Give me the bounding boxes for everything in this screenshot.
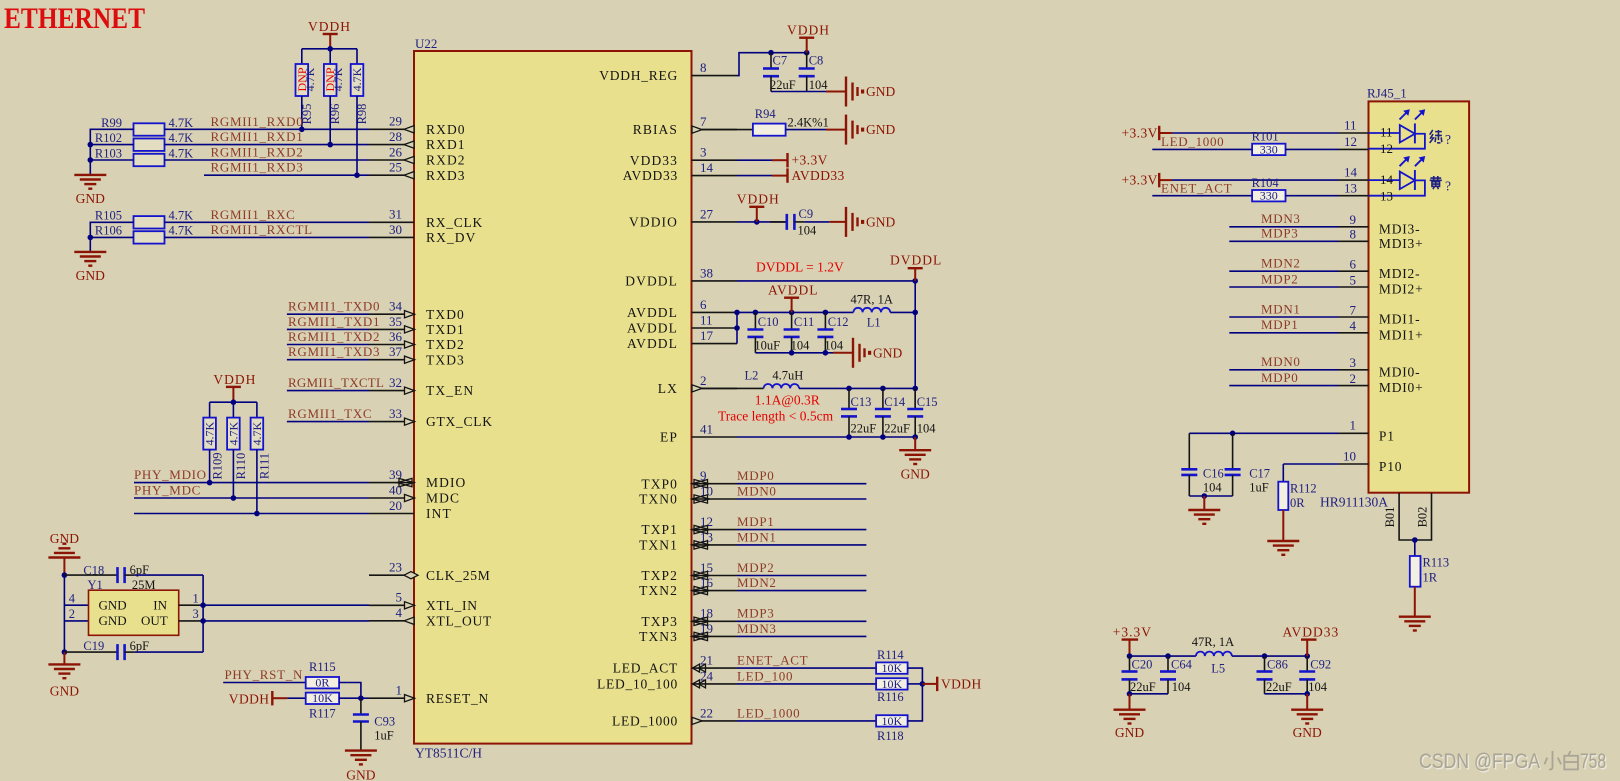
svg-text:PHY_MDIO: PHY_MDIO bbox=[134, 467, 207, 482]
wire RGMII1_TXD3 bbox=[287, 359, 369, 361]
ground GND (crystal top) bbox=[48, 531, 80, 575]
svg-text:38: 38 bbox=[700, 265, 713, 280]
wire L1 to DVDDL rail bbox=[890, 310, 918, 316]
inductor L5 47R 1A bbox=[1192, 635, 1234, 676]
svg-text:7: 7 bbox=[1350, 302, 1357, 317]
ground GND (RXC pulldowns) bbox=[74, 252, 106, 283]
net label RGMII1_RXD0 bbox=[211, 114, 304, 129]
svg-text:C16: C16 bbox=[1203, 467, 1224, 481]
wire R111 to INT bbox=[254, 450, 260, 517]
wire P10 (RJ45 pin 10) bbox=[1283, 448, 1402, 474]
svg-text:RBIAS: RBIAS bbox=[633, 122, 678, 137]
svg-text:22uF: 22uF bbox=[1130, 680, 1156, 694]
note DVDDL = 1.2V bbox=[756, 260, 844, 275]
svg-text:MDIO: MDIO bbox=[426, 475, 466, 490]
ground GND (RBIAS) bbox=[826, 115, 895, 145]
net label RGMII1_TXCTL bbox=[288, 375, 384, 390]
svg-text:R113: R113 bbox=[1423, 556, 1450, 570]
svg-text:C7: C7 bbox=[773, 54, 788, 68]
svg-text:C15: C15 bbox=[917, 395, 938, 409]
svg-text:RGMII1_TXD1: RGMII1_TXD1 bbox=[288, 314, 380, 329]
svg-text:4.7K: 4.7K bbox=[303, 67, 317, 91]
svg-text:MDN2: MDN2 bbox=[1261, 256, 1301, 271]
LED green (RJ45) bbox=[1369, 109, 1426, 148]
wire MDP3 to RJ45 pin 8 bbox=[1229, 227, 1423, 251]
wire +3.3V to RJ45 pin11 bbox=[1172, 118, 1369, 133]
svg-text:11: 11 bbox=[1380, 125, 1393, 140]
svg-text:MDP1: MDP1 bbox=[737, 514, 774, 529]
net label RGMII1_TXC bbox=[288, 406, 372, 421]
svg-text:R102: R102 bbox=[95, 131, 122, 145]
U22 pin 25 RXD3 bbox=[369, 160, 466, 183]
svg-text:?: ? bbox=[1445, 179, 1451, 194]
U22 pin 35 TXD1 bbox=[369, 314, 465, 337]
resistor R98 4.7K bbox=[350, 64, 369, 124]
wire RGMII1_RXD2 bbox=[165, 159, 370, 161]
svg-text:RGMII1_RXCTL: RGMII1_RXCTL bbox=[211, 222, 313, 237]
svg-text:4.7K: 4.7K bbox=[350, 67, 364, 91]
resistor R104 330 bbox=[1252, 176, 1286, 203]
U22 pin 26 RXD2 bbox=[369, 144, 466, 167]
svg-text:MDI2-: MDI2- bbox=[1379, 266, 1421, 281]
net label RGMII1_RXCTL bbox=[211, 222, 313, 237]
note 1.1A@0.3R bbox=[755, 393, 820, 408]
svg-text:10K: 10K bbox=[882, 714, 903, 728]
ground GND (C9) bbox=[830, 207, 896, 237]
ground GND (AVDDL caps) bbox=[833, 338, 902, 368]
svg-text:17: 17 bbox=[700, 328, 714, 343]
svg-text:104: 104 bbox=[1308, 680, 1328, 694]
svg-text:1R: 1R bbox=[1423, 571, 1438, 585]
svg-text:U22: U22 bbox=[415, 36, 437, 51]
net label MDP2 (RJ45 side) bbox=[1261, 271, 1298, 286]
U22 pin 5 XTL_IN bbox=[369, 590, 478, 613]
wire XTL_IN bbox=[203, 604, 369, 606]
svg-text:30: 30 bbox=[389, 222, 402, 237]
net label RGMII1_RXC bbox=[211, 207, 296, 222]
svg-text:23: 23 bbox=[389, 560, 402, 575]
svg-text:RXD0: RXD0 bbox=[426, 122, 466, 137]
wire EP pin41 bbox=[737, 434, 918, 440]
resistor R114 10K bbox=[876, 648, 908, 675]
svg-text:LX: LX bbox=[658, 381, 678, 396]
wire MDN1 to RJ45 pin 7 bbox=[1229, 302, 1420, 326]
svg-text:C11: C11 bbox=[794, 315, 814, 329]
resistor R105 4.7K bbox=[95, 209, 193, 229]
capacitor C20 22uF bbox=[1122, 656, 1156, 694]
net label MDP1 (U22 side) bbox=[737, 514, 774, 529]
U22 pin 30 RX_DV bbox=[369, 222, 477, 245]
svg-text:VDDH: VDDH bbox=[229, 692, 270, 707]
svg-text:TXD1: TXD1 bbox=[426, 322, 465, 337]
svg-text:0R: 0R bbox=[315, 676, 329, 690]
capacitor C19 6pF bbox=[64, 639, 203, 660]
svg-text:RGMII1_TXC: RGMII1_TXC bbox=[288, 406, 372, 421]
svg-text:TXN0: TXN0 bbox=[639, 492, 678, 507]
svg-text:R103: R103 bbox=[95, 147, 122, 161]
svg-text:RGMII1_RXD3: RGMII1_RXD3 bbox=[211, 160, 304, 175]
svg-text:6: 6 bbox=[700, 297, 707, 312]
wire INT bbox=[134, 513, 369, 515]
wire MDP0 to RJ45 pin 2 bbox=[1229, 371, 1423, 395]
U22 pin 9 TXP0 bbox=[641, 468, 737, 491]
svg-text:R111: R111 bbox=[258, 453, 272, 479]
svg-text:TXD3: TXD3 bbox=[426, 352, 465, 367]
svg-text:RGMII1_RXC: RGMII1_RXC bbox=[211, 207, 296, 222]
capacitor C93 1uF bbox=[353, 698, 395, 750]
svg-text:VDD33: VDD33 bbox=[630, 153, 678, 168]
net label MDN2 (U22 side) bbox=[737, 575, 777, 590]
capacitor C15 104 bbox=[907, 388, 937, 437]
svg-text:LED_ACT: LED_ACT bbox=[613, 661, 678, 676]
svg-text:MDP2: MDP2 bbox=[737, 560, 774, 575]
wire R95 to RGMII1_RXD0 bbox=[299, 96, 305, 132]
wire DVDDL rail bbox=[914, 281, 916, 409]
wire DVDDL pin38 bbox=[737, 278, 918, 284]
svg-text:GND: GND bbox=[99, 613, 127, 628]
crystal Y1 25M bbox=[69, 578, 203, 635]
svg-text:330: 330 bbox=[1260, 189, 1278, 203]
net label PHY_RST_N bbox=[225, 667, 304, 682]
resistor R113 1R bbox=[1410, 556, 1449, 587]
svg-text:RGMII1_TXD0: RGMII1_TXD0 bbox=[288, 299, 380, 314]
svg-text:AVDDL: AVDDL bbox=[627, 336, 678, 351]
svg-text:29: 29 bbox=[389, 114, 402, 129]
svg-text:GND: GND bbox=[50, 531, 79, 546]
wire R101 to RJ45 pin12 bbox=[1286, 134, 1369, 149]
svg-text:R118: R118 bbox=[877, 729, 904, 743]
note Trace length < 0.5cm bbox=[718, 409, 834, 424]
wire RGMII1_RXD0 bbox=[165, 128, 370, 130]
wire VDD33 to +3.3V bbox=[737, 159, 772, 161]
U22 pin 4 XTL_OUT bbox=[369, 605, 492, 628]
power +3.3V (LED_1000) bbox=[1122, 125, 1173, 140]
U22 pin 2 LX bbox=[658, 373, 737, 396]
svg-text:26: 26 bbox=[389, 144, 403, 159]
svg-text:GND: GND bbox=[1115, 725, 1144, 740]
svg-text:YT8511C/H: YT8511C/H bbox=[415, 746, 482, 761]
resistor R101 330 bbox=[1252, 130, 1286, 157]
svg-text:R117: R117 bbox=[309, 707, 336, 721]
svg-text:C19: C19 bbox=[83, 639, 104, 653]
wire P10 to R112 bbox=[1282, 464, 1284, 482]
svg-text:12: 12 bbox=[1344, 134, 1357, 149]
svg-text:CSDN @FPGA: CSDN @FPGA bbox=[1419, 749, 1541, 773]
wire PHY_MDIO bbox=[134, 482, 369, 484]
svg-text:+3.3V: +3.3V bbox=[1122, 125, 1158, 140]
svg-text:6pF: 6pF bbox=[130, 639, 150, 653]
svg-text:4: 4 bbox=[69, 591, 76, 605]
svg-text:AVDD33: AVDD33 bbox=[792, 168, 845, 183]
svg-text:P1: P1 bbox=[1379, 429, 1395, 444]
wire VDDIO bbox=[737, 219, 787, 225]
wire RXC pulldown bus to ground bbox=[88, 222, 134, 252]
svg-text:Trace length < 0.5cm: Trace length < 0.5cm bbox=[718, 409, 834, 424]
wire PHY_MDC bbox=[134, 497, 369, 499]
svg-text:CLK_25M: CLK_25M bbox=[426, 568, 491, 583]
svg-text:VDDH_REG: VDDH_REG bbox=[599, 68, 678, 83]
net label MDN0 (U22 side) bbox=[737, 483, 777, 498]
svg-text:+3.3V: +3.3V bbox=[792, 153, 828, 168]
svg-text:VDDH: VDDH bbox=[737, 192, 780, 207]
svg-text:AVDDL: AVDDL bbox=[627, 305, 678, 320]
svg-text:104: 104 bbox=[824, 339, 844, 353]
U22 pin 11 AVDDL bbox=[627, 312, 737, 335]
svg-text:TXN1: TXN1 bbox=[639, 538, 678, 553]
capacitor C12 104 bbox=[817, 312, 848, 352]
wire +3.3V to RJ45 pin14 bbox=[1172, 165, 1369, 180]
resistor R117 10K bbox=[306, 691, 339, 720]
U22 pin 15 TXP2 bbox=[641, 560, 737, 583]
U22 pin 19 TXN3 bbox=[639, 621, 737, 644]
wire RGMII1_TXD1 bbox=[287, 328, 369, 330]
svg-text:R105: R105 bbox=[95, 209, 122, 223]
svg-text:20: 20 bbox=[389, 498, 402, 513]
svg-text:11: 11 bbox=[1344, 118, 1357, 133]
svg-text:+3.3V: +3.3V bbox=[1122, 173, 1158, 188]
power +3.3V (ENET_ACT) bbox=[1122, 173, 1173, 188]
ground GND (R113) bbox=[1399, 587, 1431, 631]
wire R96 to RGMII1_RXD1 bbox=[327, 96, 333, 147]
svg-text:8: 8 bbox=[700, 60, 707, 75]
svg-text:TXD0: TXD0 bbox=[426, 307, 465, 322]
svg-text:MDP3: MDP3 bbox=[1261, 226, 1298, 241]
svg-text:R106: R106 bbox=[95, 224, 122, 238]
U22 pin 22 LED_1000 bbox=[612, 705, 737, 728]
label yellow LED bbox=[1430, 176, 1451, 194]
svg-text:MDN3: MDN3 bbox=[737, 621, 777, 636]
net label LED_1000 (pin22) bbox=[737, 705, 800, 720]
svg-text:TXN3: TXN3 bbox=[639, 629, 678, 644]
svg-text:3: 3 bbox=[193, 607, 199, 621]
svg-text:PHY_RST_N: PHY_RST_N bbox=[225, 667, 304, 682]
svg-text:4.7K: 4.7K bbox=[169, 224, 194, 238]
svg-text:MDN2: MDN2 bbox=[737, 575, 777, 590]
wire VDDH pull-up bus bbox=[302, 46, 357, 64]
svg-text:GND: GND bbox=[866, 122, 895, 137]
svg-text:11: 11 bbox=[700, 312, 713, 327]
wire R104 to RJ45 pin13 bbox=[1286, 180, 1369, 195]
wire AVDDL line bbox=[737, 310, 853, 316]
svg-text:TXP3: TXP3 bbox=[641, 614, 678, 629]
wire VDDH MDIO pull-up bus bbox=[210, 399, 257, 417]
svg-text:MDI0+: MDI0+ bbox=[1379, 380, 1424, 395]
svg-text:GND: GND bbox=[1293, 725, 1322, 740]
svg-text:MDN0: MDN0 bbox=[1261, 354, 1301, 369]
resistor R102 4.7K bbox=[95, 131, 193, 151]
svg-text:MDP3: MDP3 bbox=[737, 606, 774, 621]
net label PHY_MDIO bbox=[134, 467, 207, 482]
svg-text:GND: GND bbox=[346, 768, 375, 781]
svg-text:R115: R115 bbox=[309, 660, 336, 674]
U22 pin 21 LED_ACT bbox=[613, 653, 737, 676]
svg-text:3: 3 bbox=[1350, 355, 1357, 370]
svg-text:VDDH: VDDH bbox=[213, 372, 256, 387]
wire MDN2 to RJ45 pin 6 bbox=[1229, 257, 1420, 281]
svg-text:VDDH: VDDH bbox=[308, 19, 351, 34]
svg-text:34: 34 bbox=[389, 299, 403, 314]
resistor R106 4.7K bbox=[95, 224, 193, 244]
wire MDP2 to RJ45 pin 5 bbox=[1229, 272, 1423, 296]
resistor R109 4.7K bbox=[203, 418, 225, 480]
svg-text:27: 27 bbox=[700, 206, 714, 221]
svg-text:4.7K: 4.7K bbox=[169, 116, 194, 130]
svg-text:1.1A@0.3R: 1.1A@0.3R bbox=[755, 393, 820, 408]
power AVDD33 (filter) bbox=[1283, 624, 1340, 656]
net label MDP0 (U22 side) bbox=[737, 468, 774, 483]
svg-text:1: 1 bbox=[1350, 418, 1357, 433]
wire crystal left vertical bbox=[62, 572, 89, 655]
wire RESET_N bbox=[339, 697, 369, 699]
net label MDN1 (RJ45 side) bbox=[1261, 301, 1301, 316]
resistor R118 10K bbox=[876, 714, 908, 743]
inductor L1 47R 1A bbox=[851, 293, 893, 330]
U22 pin 16 TXN2 bbox=[639, 575, 737, 598]
capacitor C13 22uF bbox=[841, 388, 876, 437]
svg-text:0R: 0R bbox=[1290, 496, 1305, 510]
net label MDP2 (U22 side) bbox=[737, 560, 774, 575]
resistor R96 4.7K DNP bbox=[323, 64, 345, 124]
svg-text:XTL_OUT: XTL_OUT bbox=[426, 613, 492, 628]
net label RGMII1_TXD1 bbox=[288, 314, 380, 329]
svg-text:TXP2: TXP2 bbox=[641, 568, 678, 583]
U22 pin 28 RXD1 bbox=[369, 129, 466, 152]
svg-text:TX_EN: TX_EN bbox=[426, 383, 474, 398]
svg-text:2: 2 bbox=[700, 373, 707, 388]
connector RJ45_1 HR911130A body bbox=[1320, 86, 1469, 510]
U22 pin 12 TXP1 bbox=[641, 514, 737, 537]
svg-text:MDN3: MDN3 bbox=[1261, 211, 1301, 226]
U22 pin 8 VDDH_REG bbox=[599, 60, 737, 83]
svg-text:C17: C17 bbox=[1249, 467, 1270, 481]
net label MDN2 (RJ45 side) bbox=[1261, 256, 1301, 271]
svg-text:1uF: 1uF bbox=[1249, 481, 1269, 495]
svg-text:14: 14 bbox=[1344, 165, 1358, 180]
svg-text:RJ45_1: RJ45_1 bbox=[1367, 86, 1407, 101]
svg-text:47R, 1A: 47R, 1A bbox=[1192, 635, 1234, 649]
svg-text:40: 40 bbox=[389, 482, 402, 497]
svg-text:RESET_N: RESET_N bbox=[426, 691, 489, 706]
svg-text:MDN0: MDN0 bbox=[737, 483, 777, 498]
U22 pin 17 AVDDL bbox=[627, 328, 737, 351]
wire MDP1 (U22 side) bbox=[737, 529, 866, 531]
svg-text:104: 104 bbox=[791, 339, 811, 353]
resistor R112 0R bbox=[1278, 482, 1316, 511]
svg-text:INT: INT bbox=[426, 506, 452, 521]
svg-text:22uF: 22uF bbox=[770, 78, 796, 92]
ground GND (R112) bbox=[1267, 510, 1299, 555]
ground GND (C86 C92) bbox=[1291, 694, 1323, 740]
svg-text:LED_100: LED_100 bbox=[737, 668, 793, 683]
svg-text:AVDD33: AVDD33 bbox=[1283, 624, 1340, 639]
svg-text:MDN1: MDN1 bbox=[737, 529, 777, 544]
svg-text:4.7K: 4.7K bbox=[226, 421, 240, 445]
wire ENET_ACT to R104 bbox=[1152, 195, 1252, 197]
svg-text:10: 10 bbox=[1343, 448, 1356, 463]
svg-text:RGMII1_RXD2: RGMII1_RXD2 bbox=[211, 145, 304, 160]
svg-text:C64: C64 bbox=[1171, 658, 1193, 672]
title ETHERNET bbox=[4, 2, 145, 35]
svg-text:7: 7 bbox=[700, 114, 707, 129]
resistor R99 4.7K bbox=[101, 116, 193, 136]
svg-text:XTL_IN: XTL_IN bbox=[426, 598, 478, 613]
svg-text:C92: C92 bbox=[1310, 658, 1331, 672]
ground GND (C93) bbox=[345, 751, 377, 781]
net label RGMII1_TXD3 bbox=[288, 344, 380, 359]
svg-text:C86: C86 bbox=[1267, 658, 1288, 672]
net label MDP0 (RJ45 side) bbox=[1261, 370, 1298, 385]
capacitor C64 104 bbox=[1160, 656, 1193, 694]
resistor R103 4.7K bbox=[95, 147, 193, 167]
net label LED_1000 (RJ45) bbox=[1161, 134, 1224, 149]
wire LED_1000 to R101 bbox=[1152, 148, 1252, 150]
svg-text:DVDDL: DVDDL bbox=[625, 274, 678, 289]
wire RGMII1_TXCTL bbox=[287, 390, 369, 392]
wire MDN3 (U22 side) bbox=[737, 635, 866, 637]
wire VDDH to R117 bbox=[287, 697, 305, 699]
U22 pin 20 INT bbox=[369, 498, 452, 521]
svg-text:GND: GND bbox=[866, 84, 895, 99]
svg-text:TXP1: TXP1 bbox=[641, 522, 678, 537]
power +3.3V (VDD33) bbox=[772, 153, 828, 168]
svg-text:C20: C20 bbox=[1132, 658, 1153, 672]
svg-text:GND: GND bbox=[866, 215, 895, 230]
svg-text:?: ? bbox=[1445, 132, 1451, 147]
svg-text:10uF: 10uF bbox=[754, 339, 780, 353]
ground GND (C16 C17) bbox=[1188, 496, 1220, 524]
svg-text:+3.3V: +3.3V bbox=[1113, 624, 1152, 639]
net label ENET_ACT (pin21) bbox=[737, 653, 808, 668]
ground GND (EP) bbox=[899, 437, 931, 482]
svg-text:104: 104 bbox=[798, 224, 818, 238]
ground GND (RXD pulldowns) bbox=[74, 175, 106, 206]
wire PHY_RST_N bbox=[223, 682, 306, 684]
net label MDP3 (RJ45 side) bbox=[1261, 226, 1298, 241]
wire shield to R113 bbox=[1414, 540, 1416, 556]
capacitor C11 104 bbox=[784, 312, 815, 352]
svg-text:22uF: 22uF bbox=[1266, 680, 1292, 694]
resistor R116 10K bbox=[876, 677, 908, 704]
svg-text:28: 28 bbox=[389, 129, 402, 144]
svg-text:35: 35 bbox=[389, 314, 402, 329]
power VDDH (LED pull-ups) bbox=[922, 676, 981, 691]
svg-text:3: 3 bbox=[700, 145, 707, 160]
capacitor C10 10uF bbox=[747, 312, 780, 352]
U22 pin 27 VDDIO bbox=[629, 206, 737, 229]
svg-text:EP: EP bbox=[660, 430, 678, 445]
svg-text:GND: GND bbox=[76, 191, 105, 206]
U22 pin 13 TXN1 bbox=[639, 529, 737, 552]
svg-text:22: 22 bbox=[700, 705, 713, 720]
U22 pin 32 TX_EN bbox=[369, 375, 474, 398]
svg-text:L1: L1 bbox=[867, 316, 881, 330]
wire crystal right vertical bbox=[200, 575, 206, 652]
svg-text:B01: B01 bbox=[1383, 507, 1397, 528]
power VDDH (VDDIO) bbox=[737, 192, 780, 222]
wire RGMII1_RXCTL bbox=[165, 236, 370, 238]
U22 pin 1 RESET_N bbox=[369, 683, 489, 706]
svg-text:C13: C13 bbox=[851, 395, 872, 409]
svg-text:41: 41 bbox=[700, 421, 713, 436]
net label LED_100 bbox=[737, 668, 793, 683]
net label MDP3 (U22 side) bbox=[737, 606, 774, 621]
power +3.3V (filter) bbox=[1113, 624, 1152, 656]
capacitor C17 1uF bbox=[1225, 433, 1270, 496]
wire MDP2 (U22 side) bbox=[737, 575, 866, 577]
capacitor C9 104 bbox=[770, 207, 830, 238]
net label RGMII1_RXD1 bbox=[211, 129, 304, 144]
power VDDH (VDDH_REG) bbox=[787, 23, 830, 53]
